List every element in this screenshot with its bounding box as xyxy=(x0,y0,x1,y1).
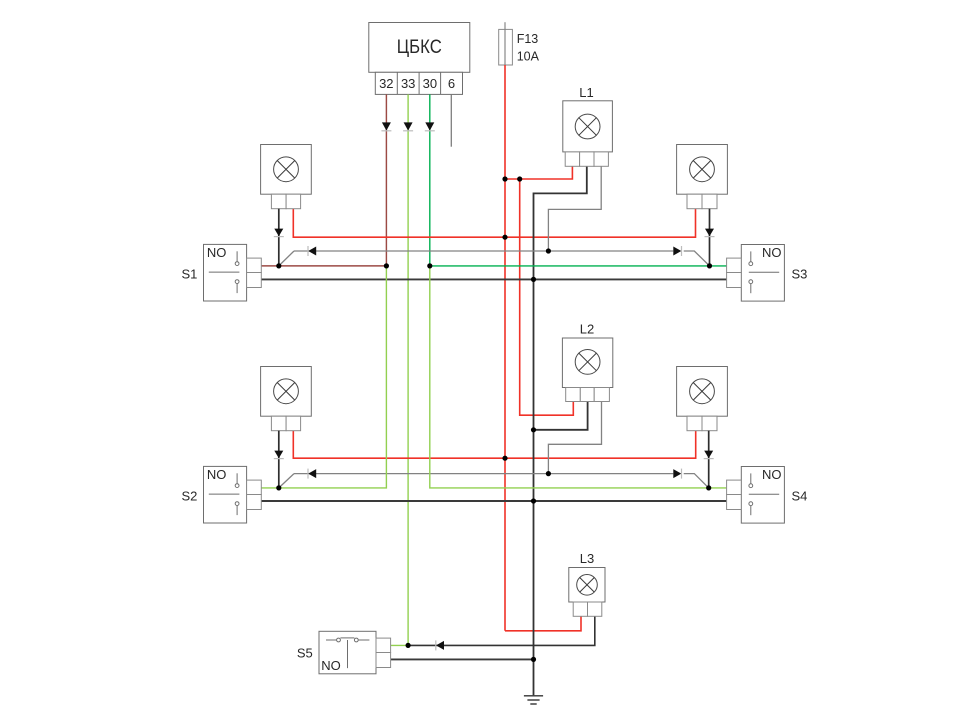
svg-text:L2: L2 xyxy=(580,322,594,337)
svg-text:NO: NO xyxy=(207,467,227,482)
svg-text:L3: L3 xyxy=(580,551,594,566)
gray wire from L2 pin 3 xyxy=(548,402,601,474)
lamp L2 xyxy=(562,338,612,402)
svg-text:NO: NO xyxy=(762,245,782,260)
light green row-2 wire (down from row1 to S4) xyxy=(430,266,727,488)
switch S3 xyxy=(727,245,785,302)
red supply bus (vertical from fuse) xyxy=(504,65,506,631)
junction S3 node xyxy=(707,263,712,268)
svg-text:6: 6 xyxy=(448,76,455,91)
junction at gray row-2 / L2 tap xyxy=(546,471,551,476)
lamp above S4 xyxy=(677,367,728,431)
switch S1 xyxy=(204,244,262,301)
green row-1 wire (pin-30 wire to S3) xyxy=(430,265,727,267)
lamp L3 xyxy=(569,568,605,617)
svg-text:L1: L1 xyxy=(579,85,593,100)
terminal divider xyxy=(418,72,420,94)
wire from pin 30 (green vertical) xyxy=(429,94,431,266)
diode D3 on pin-30 wire xyxy=(425,122,435,130)
dark red row-1 wire (S1 node to pin-32 wire) xyxy=(261,265,386,267)
terminal divider xyxy=(440,72,442,94)
red feed wire to L3 xyxy=(505,616,581,631)
wire from pin 32 (dark red vertical) xyxy=(385,94,387,266)
svg-text:S5: S5 xyxy=(297,646,313,661)
diode D10 on lamp(S3) wire xyxy=(705,229,715,237)
black wire lamp(S3) to node xyxy=(709,209,711,266)
lamp L1 xyxy=(563,101,613,166)
gray slant to S3 node xyxy=(684,251,710,266)
diode D9 on lamp(S1) wire xyxy=(274,229,284,237)
light green drop wire (pin-32 node down to S2 node) xyxy=(261,266,386,488)
junction at fuse bus / row-1 red xyxy=(502,235,507,240)
diode D11 on lamp(S2) wire xyxy=(274,451,284,459)
junction at L2 feed tap xyxy=(517,176,522,181)
diode D2 on pin-33 wire xyxy=(403,122,413,130)
svg-text:10A: 10A xyxy=(517,50,540,64)
black row-2 wire (S2 to S4) xyxy=(261,500,726,502)
junction S1 node xyxy=(276,263,281,268)
black wire lamp(S1) to node xyxy=(278,209,280,266)
svg-text:S3: S3 xyxy=(792,267,808,282)
wire above fuse xyxy=(504,22,506,29)
gray slant to S1 node xyxy=(279,251,294,266)
gray row-2 cross wire xyxy=(294,473,673,475)
svg-text:S4: S4 xyxy=(792,489,808,504)
switch S5 xyxy=(319,631,391,674)
junction pin-32 wire / row-1 xyxy=(384,263,389,268)
control unit U1 (ЦБКС) body xyxy=(369,23,470,73)
terminal block of U1 xyxy=(375,72,462,94)
diode D1 on pin-32 wire xyxy=(381,122,391,130)
junction black bus / bottom black xyxy=(531,657,536,662)
svg-text:NO: NO xyxy=(762,467,782,482)
svg-text:30: 30 xyxy=(423,76,437,91)
junction S5 node xyxy=(406,643,411,648)
ground symbol xyxy=(524,696,543,704)
diode D4 (row 1, points to S1) xyxy=(308,246,316,256)
lamp above S2 xyxy=(261,367,312,431)
svg-text:33: 33 xyxy=(401,76,415,91)
junction black bus / L2 black xyxy=(531,427,536,432)
black wire from L3 to S5 node xyxy=(408,616,595,645)
svg-text:NO: NO xyxy=(207,245,227,260)
black bottom wire (S5 to ground) xyxy=(391,658,534,660)
junction black bus / row-1 black xyxy=(531,277,536,282)
red feed wire to L2 (second vertical) xyxy=(520,179,574,415)
junction at fuse bus / L1 feed xyxy=(502,176,507,181)
junction S2 node xyxy=(276,485,281,490)
junction pin-30 wire / row-1 xyxy=(427,263,432,268)
red feed wire to L1 xyxy=(505,166,572,179)
terminal divider xyxy=(396,72,398,94)
junction black bus / row-2 black xyxy=(531,498,536,503)
junction at gray row-1 / L1 tap xyxy=(546,248,551,253)
switch S4 xyxy=(727,467,785,524)
black wire lamp(S2) to node xyxy=(278,431,280,488)
diode D12 on lamp(S4) wire xyxy=(704,451,714,459)
svg-text:S1: S1 xyxy=(182,267,198,282)
junction at fuse bus / row-2 red xyxy=(502,456,507,461)
red row-2 wire (lamps above S2 and S4) xyxy=(293,431,695,459)
junction S4 node xyxy=(706,485,711,490)
diode D6 (row 2, points to S2) xyxy=(308,469,316,479)
lamp above S3 xyxy=(677,145,728,209)
diode D5 (row 1, points to S3) xyxy=(673,246,681,256)
svg-text:F13: F13 xyxy=(517,32,539,46)
wire from pin 6 (gray stub) xyxy=(450,94,452,146)
svg-text:NO: NO xyxy=(321,658,341,673)
black wire lamp(S4) to node xyxy=(708,431,710,488)
svg-text:ЦБКС: ЦБКС xyxy=(397,37,442,58)
svg-text:S2: S2 xyxy=(182,489,198,504)
diode D7 (row 2, points to S4) xyxy=(673,469,681,479)
red row-1 wire (lamps above S1 and S3) xyxy=(293,209,695,238)
gray row-1 cross wire xyxy=(294,250,673,252)
switch S2 xyxy=(204,466,262,523)
black ground bus (vertical) xyxy=(534,166,587,695)
light green wire S5 to node xyxy=(391,644,409,646)
diode D8 (bottom, points to S5) xyxy=(436,640,444,650)
gray wire from L1 pin 3 xyxy=(548,166,601,251)
svg-text:32: 32 xyxy=(379,76,393,91)
gray slant to S4 node xyxy=(684,474,709,488)
black wire from L2 to bus xyxy=(534,402,588,430)
wire from pin 33 (light green vertical, down to S5 node) xyxy=(407,94,409,645)
gray slant to S2 node xyxy=(279,474,294,488)
lamp above S1 xyxy=(261,145,312,209)
black row-1 wire (S1 to S3) xyxy=(261,278,727,280)
fuse F13 xyxy=(499,29,513,65)
